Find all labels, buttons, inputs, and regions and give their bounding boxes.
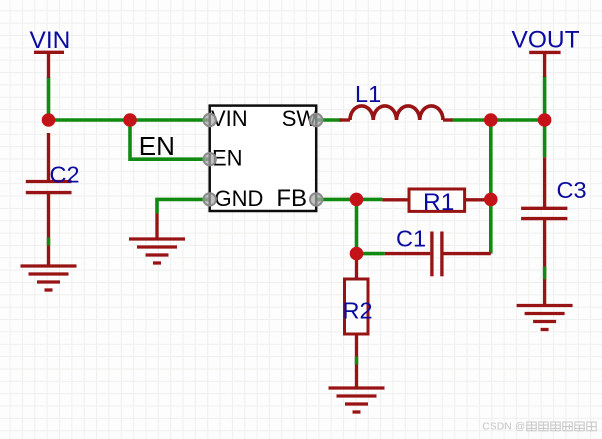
svg-text:R2: R2 <box>343 297 373 323</box>
svg-text:FB: FB <box>276 185 307 212</box>
svg-text:C1: C1 <box>396 226 426 252</box>
svg-text:R1: R1 <box>423 189 454 216</box>
svg-text:L1: L1 <box>355 81 381 107</box>
svg-text:GND: GND <box>215 186 264 211</box>
svg-text:EN: EN <box>139 131 175 161</box>
svg-text:CSDN @: CSDN @ <box>482 422 525 433</box>
svg-text:VIN: VIN <box>30 27 71 54</box>
svg-text:C3: C3 <box>557 177 587 203</box>
svg-text:C2: C2 <box>50 162 80 188</box>
svg-text:VOUT: VOUT <box>512 26 580 53</box>
